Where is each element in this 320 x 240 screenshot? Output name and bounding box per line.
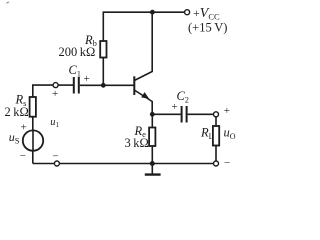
wire: RL bottom to output bottom terminal (215, 146, 217, 162)
wire: input top from Rs corner to input terminal (33, 85, 53, 97)
svg-text:+: + (171, 101, 177, 113)
wire: base node to transistor base bar (103, 84, 133, 86)
node: base junction dot (101, 83, 106, 88)
terminal: output bottom open circle (214, 161, 219, 166)
capacitor C1 plates (73, 77, 75, 94)
resistor Rb body (100, 41, 106, 58)
svg-text:+: + (21, 122, 27, 134)
transistor Q1 base bar (133, 76, 135, 95)
terminal: +Vcc open circle (185, 10, 190, 15)
svg-text:C1: C1 (69, 63, 81, 78)
node: ground junction dot (150, 161, 155, 166)
svg-text:(+15 V): (+15 V) (188, 20, 227, 34)
terminal: output top open circle (214, 112, 219, 117)
wire: input terminal to C1 left plate (58, 84, 73, 86)
wire: output terminal down to RL (215, 117, 217, 126)
node: collector junction dot on top rail (150, 10, 155, 15)
capacitor C2 plates (181, 106, 183, 123)
svg-text:u1: u1 (50, 117, 59, 129)
svg-text:−: − (20, 150, 26, 162)
svg-text:uO: uO (224, 126, 236, 141)
resistor Re body (149, 128, 155, 147)
svg-text:+: + (84, 73, 90, 85)
svg-text:uS: uS (9, 130, 20, 146)
svg-text:+: + (52, 88, 58, 100)
transistor Q1 emitter arrow (141, 92, 149, 99)
source us circle (23, 130, 43, 150)
resistor RL body (213, 126, 219, 146)
svg-text:−: − (224, 157, 230, 169)
ground symbol (151, 164, 153, 175)
wire: Re bottom to ground rail (151, 146, 153, 164)
wire: emitter node down to Re (151, 114, 153, 127)
resistor Rs body (30, 97, 36, 117)
wire: source us vertical lead (Rs bottom through source to rail) (32, 117, 34, 164)
svg-text:2 kΩ: 2 kΩ (5, 105, 29, 119)
transistor Q1 collector lead (134, 12, 152, 80)
wire: C2 right plate to output terminal (188, 113, 216, 115)
svg-text:3 kΩ: 3 kΩ (125, 136, 149, 150)
terminal: input top open circle (53, 83, 58, 88)
node: emitter junction dot (150, 112, 155, 117)
wire: emitter node to C2 left plate (152, 113, 180, 115)
wire: Rb bottom to base node (102, 58, 104, 86)
svg-text:+VCC: +VCC (193, 6, 220, 22)
svg-text:+: + (224, 105, 230, 117)
wire: C1 right plate to base node (80, 84, 104, 86)
svg-text:200 kΩ: 200 kΩ (59, 45, 96, 59)
transistor Q1 emitter lead (134, 90, 152, 114)
wire: bottom ground rail (33, 163, 214, 165)
wire: top supply rail from Rb top corner to Vcc terminal (103, 12, 184, 41)
terminal: input bottom open circle (54, 161, 59, 166)
stray mark top-left (7, 2, 10, 3)
svg-text:−: − (52, 151, 58, 163)
svg-text:C2: C2 (177, 89, 189, 104)
svg-text:RL: RL (200, 126, 214, 141)
